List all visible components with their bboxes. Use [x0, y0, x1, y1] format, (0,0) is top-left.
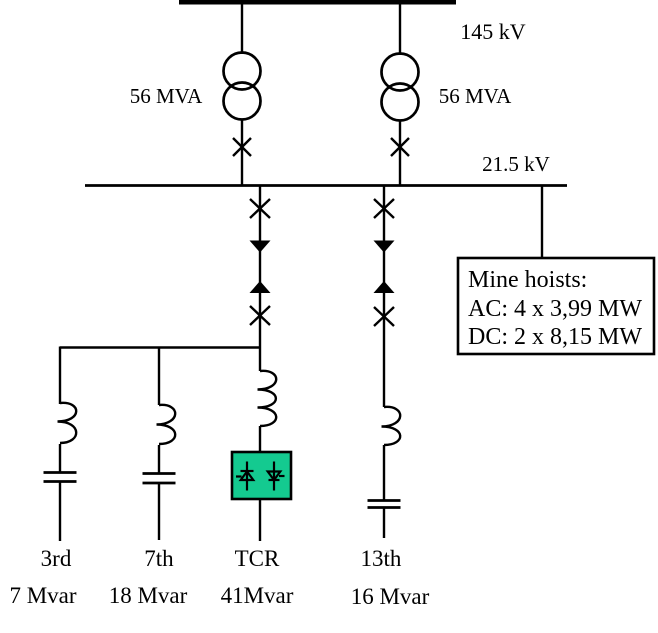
valve arrow up (left)	[250, 281, 271, 293]
wire TCR branch	[259, 348, 261, 372]
wire	[259, 426, 261, 452]
capacitor C3 (13th)	[368, 501, 401, 508]
svg-text:56 MVA: 56 MVA	[130, 84, 203, 108]
breaker X6	[374, 307, 394, 326]
wire	[383, 508, 385, 539]
thyristor (down) inside box	[268, 462, 285, 491]
valve arrow down (left)	[250, 241, 271, 253]
svg-text:3rd: 3rd	[41, 546, 72, 571]
svg-text:16 Mvar: 16 Mvar	[351, 584, 430, 609]
svg-text:21.5 kV: 21.5 kV	[482, 152, 550, 176]
wire T1 to 21.5kV bus	[241, 119, 243, 186]
svg-text:7 Mvar: 7 Mvar	[9, 583, 76, 608]
wire	[59, 444, 61, 472]
21.5 kV bus	[85, 184, 567, 187]
wire SVC branch (left)	[259, 186, 261, 348]
mine hoists box	[458, 258, 654, 354]
inductor L3 (TCR)	[258, 371, 277, 426]
inductor L2 (7th)	[157, 405, 176, 444]
valve arrow up (right)	[374, 281, 395, 293]
breaker X2	[391, 138, 409, 156]
transformer T1	[224, 53, 261, 120]
svg-text:18 Mvar: 18 Mvar	[109, 583, 188, 608]
inductor L4 (13th)	[382, 407, 401, 445]
wire 7th filter branch	[158, 347, 160, 406]
svg-text:Mine hoists:: Mine hoists:	[468, 267, 587, 293]
filter junction bus	[60, 346, 260, 348]
145 kV bus	[179, 0, 456, 5]
breaker X4	[250, 306, 270, 325]
breaker X5	[374, 199, 394, 218]
thyristor (up) inside box	[236, 462, 254, 491]
svg-text:AC: 4 x 3,99 MW: AC: 4 x 3,99 MW	[468, 296, 642, 322]
wire below TCR box	[259, 499, 261, 541]
svg-text:TCR: TCR	[235, 546, 280, 571]
svg-text:145 kV: 145 kV	[460, 19, 526, 44]
wire	[59, 482, 61, 542]
wire	[158, 483, 160, 540]
wire	[158, 445, 160, 473]
wire feeder 1 from 145kV bus to transformer T1	[241, 2, 243, 54]
capacitor C1 (3rd)	[44, 473, 77, 482]
svg-text:13th: 13th	[361, 546, 402, 571]
TCR thyristor valve box	[232, 452, 291, 499]
wire	[383, 445, 385, 500]
valve arrow down (right)	[374, 241, 395, 253]
transformer T2	[382, 54, 419, 121]
wire feeder 2 from 145kV bus to transformer T2	[399, 2, 401, 55]
wire 3rd filter branch	[59, 347, 61, 405]
wire 13th branch (right)	[383, 186, 385, 408]
svg-text:7th: 7th	[144, 546, 174, 571]
breaker X3	[250, 199, 270, 218]
svg-text:56 MVA: 56 MVA	[439, 84, 512, 108]
svg-text:DC: 2 x 8,15 MW: DC: 2 x 8,15 MW	[468, 324, 642, 350]
wire T2 to 21.5kV bus	[399, 120, 401, 186]
inductor L1 (3rd)	[58, 403, 77, 443]
wire to mine hoists box	[541, 186, 543, 259]
capacitor C2 (7th)	[143, 474, 176, 484]
svg-text:41Mvar: 41Mvar	[221, 583, 294, 608]
breaker X1	[233, 138, 251, 156]
